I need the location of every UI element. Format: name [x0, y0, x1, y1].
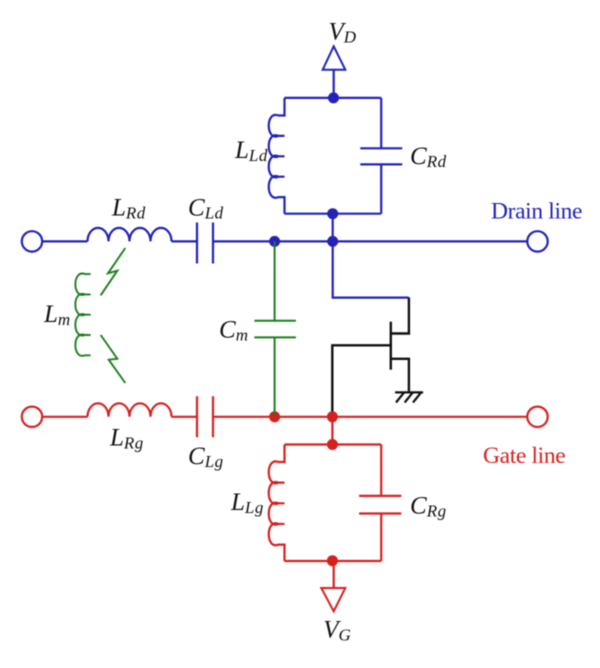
- wire tank bottom gate side: [285, 560, 382, 562]
- wire V_D lead: [333, 70, 335, 98]
- terminal circle drain-line right: [527, 231, 547, 251]
- coupling arrow bottom zigzag: [101, 335, 126, 383]
- wire C_Rg top lead: [380, 445, 382, 496]
- coupling arrow top zigzag: [101, 248, 126, 295]
- capacitor C_Lg: [197, 396, 213, 437]
- capacitor C_Ld: [197, 223, 213, 264]
- wire C_m top lead: [274, 241, 276, 320]
- inductor L_Rg: [88, 403, 172, 417]
- terminal circle gate-line right: [527, 407, 547, 427]
- supply terminal V_G triangle: [321, 588, 345, 611]
- terminal circle gate-line left: [22, 407, 42, 427]
- capacitor C_m: [254, 321, 296, 338]
- node gate line / C_m junction: [269, 411, 280, 422]
- supply terminal V_D triangle: [323, 46, 346, 69]
- inductor L_Ld with leads: [269, 98, 285, 214]
- node tank top gate junction: [327, 439, 338, 450]
- wire gate line main segment: [214, 416, 527, 418]
- capacitor C_Rd: [360, 148, 402, 164]
- wire inductor to C_Lg: [172, 416, 197, 418]
- terminal circle drain-line left: [22, 231, 42, 251]
- wire tank bottom: [285, 213, 382, 215]
- node drain line / tank junction: [327, 236, 338, 247]
- inductor L_Lg with leads: [269, 445, 285, 562]
- wire C_Rg bottom lead: [380, 514, 382, 562]
- wire transistor gate lead: [332, 345, 391, 417]
- wire drain to transistor: [333, 241, 409, 297]
- svg-text:Gate line: Gate line: [483, 443, 565, 469]
- wire V_G lead: [333, 561, 335, 588]
- inductor L_m coil: [75, 274, 90, 356]
- inductor L_Rd: [88, 228, 172, 242]
- wire C_Rd bottom lead: [380, 164, 382, 213]
- svg-text:Drain line: Drain line: [491, 199, 582, 225]
- wire gate line to tank: [331, 417, 333, 445]
- node gate line / tank junction: [327, 411, 338, 422]
- capacitor C_Rg: [359, 496, 401, 514]
- wire tank top: [285, 97, 382, 99]
- wire inductor to C_Ld: [172, 240, 197, 242]
- node drain line / C_m junction: [269, 236, 280, 247]
- node tank bottom junction: [327, 208, 338, 219]
- wire drain line to tank: [332, 214, 334, 242]
- wire tank top gate side: [285, 443, 382, 445]
- wire transistor source lead: [391, 359, 409, 392]
- wire gate line left segment: [42, 416, 87, 418]
- node tank top / V_D junction: [328, 92, 339, 103]
- transistor Q1 channel bar: [390, 322, 392, 370]
- wire C_m bottom lead: [274, 337, 276, 416]
- wire transistor drain lead: [391, 298, 409, 334]
- ground: [395, 392, 423, 402]
- node tank bottom / V_G junction: [327, 555, 338, 566]
- wire drain line main segment: [214, 240, 527, 242]
- wire C_Rd top lead: [380, 98, 382, 148]
- wire drain line left segment: [42, 240, 87, 242]
